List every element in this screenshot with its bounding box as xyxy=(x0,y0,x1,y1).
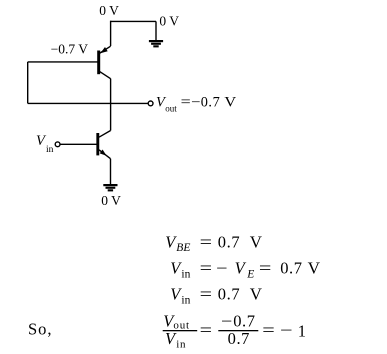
fraction 2 bar xyxy=(218,330,258,331)
svg-text:−: − xyxy=(221,312,232,331)
svg-text:0.7: 0.7 xyxy=(218,232,240,251)
equation line 3: V_in = 0.7 V xyxy=(170,285,262,307)
wire collector arm vertical (Q1 collector to Q2 collector) xyxy=(110,79,112,131)
svg-text:V: V xyxy=(308,259,320,278)
svg-text:in: in xyxy=(181,268,190,280)
svg-text:=: = xyxy=(259,259,272,278)
svg-text:0.7: 0.7 xyxy=(233,312,255,331)
ground top-right xyxy=(149,40,163,47)
svg-text:out: out xyxy=(173,319,189,331)
wire base lead Q1 xyxy=(28,61,98,63)
node Vout terminal circle xyxy=(148,101,153,106)
svg-text:−0.7 V: −0.7 V xyxy=(51,42,89,57)
fraction 1 bar xyxy=(163,330,198,331)
svg-text:E: E xyxy=(246,268,254,280)
svg-text:V: V xyxy=(235,259,247,278)
svg-text:in: in xyxy=(176,338,186,350)
equation line 1: V_BE = 0.7 V xyxy=(165,232,262,254)
svg-text:−: − xyxy=(216,259,227,278)
svg-text:−: − xyxy=(191,95,200,111)
svg-text:0 V: 0 V xyxy=(99,3,119,18)
svg-text:−: − xyxy=(280,321,293,340)
svg-text:in: in xyxy=(46,145,54,155)
wire emitter arm vertical xyxy=(110,21,112,46)
svg-text:V: V xyxy=(250,285,262,304)
svg-text:=: = xyxy=(200,232,212,251)
wire top rail from emitter arm to ground drop xyxy=(111,20,156,22)
svg-text:=: = xyxy=(200,285,212,304)
svg-text:=: = xyxy=(181,95,191,111)
svg-text:V: V xyxy=(250,232,262,251)
svg-text:So,: So, xyxy=(28,320,53,339)
svg-text:V: V xyxy=(165,329,177,348)
svg-text:=: = xyxy=(200,321,212,340)
node Vin terminal circle xyxy=(55,142,60,147)
svg-text:V: V xyxy=(224,95,237,111)
svg-text:0.7: 0.7 xyxy=(228,329,250,348)
svg-text:0.7: 0.7 xyxy=(218,285,240,304)
svg-text:0.7: 0.7 xyxy=(201,95,221,111)
svg-text:=: = xyxy=(200,259,212,278)
svg-text:BE: BE xyxy=(176,242,190,254)
wire emitter Q2 vertical to ground xyxy=(110,159,112,185)
transistor Q1 (PNP, top) xyxy=(99,46,111,78)
ground bottom xyxy=(103,184,117,191)
equation line 2: V_in = - V_E = 0.7 V xyxy=(170,259,320,281)
wire feedback left vertical xyxy=(27,62,29,104)
wire base lead Q2 xyxy=(60,143,97,145)
svg-text:1: 1 xyxy=(298,321,306,340)
wire output horizontal to Vout terminal xyxy=(28,102,149,104)
wire right vertical to ground xyxy=(155,21,157,40)
transistor Q2 (NPN, bottom) xyxy=(98,131,111,159)
svg-text:0 V: 0 V xyxy=(159,14,179,29)
svg-text:0.7: 0.7 xyxy=(280,259,302,278)
svg-text:=: = xyxy=(262,321,275,340)
equation line 4: Vout/Vin = -0.7/0.7 = -1 xyxy=(163,312,306,351)
svg-text:out: out xyxy=(165,103,177,113)
svg-text:0 V: 0 V xyxy=(101,193,121,208)
svg-text:in: in xyxy=(181,294,190,306)
